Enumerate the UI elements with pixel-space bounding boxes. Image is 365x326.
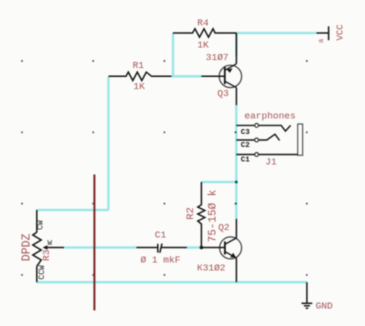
svg-text:R4: R4 [197, 17, 209, 28]
svg-text:C1: C1 [155, 229, 167, 240]
potentiometer R3 [33, 210, 64, 282]
svg-text:75-15Ø k: 75-15Ø k [207, 189, 219, 242]
ground symbol [302, 282, 313, 308]
wire bottom ground net [37, 281, 307, 283]
wire C1 to Q2 base [187, 246, 200, 248]
svg-text:VCC: VCC [336, 24, 346, 41]
wire pot top horizontal [37, 209, 109, 211]
jack pin C3 lead [236, 125, 290, 131]
wire VCC net top: R4 right to VCC terminal [236, 32, 316, 34]
resistor R2 (vertical) [198, 182, 205, 248]
junction node R2 top / collector [235, 181, 238, 184]
wiper arrow R3 [43, 245, 48, 250]
wire R1 right to Q3 base [172, 75, 202, 77]
resistor R1 [109, 72, 172, 80]
svg-text:C2: C2 [241, 142, 251, 150]
wire Q3 emitter down to jack / Q2 collector vertical [235, 104, 237, 219]
svg-text:R3: R3 [41, 249, 52, 261]
svg-text:C1: C1 [241, 157, 251, 165]
jack pin C2 lead [236, 134, 279, 140]
svg-text:C3: C3 [241, 129, 251, 137]
svg-text:CCW: CCW [38, 265, 47, 280]
wire R2 top to collector net [201, 181, 236, 183]
wire R4 left lead drop (vertical cyan x=173) [172, 34, 174, 77]
wire left vertical from R1 left lead down [107, 77, 109, 210]
transistor Q3 (PNP) [201, 33, 241, 105]
resistor R4 [173, 29, 237, 37]
svg-text:CW: CW [36, 220, 45, 230]
svg-text:J1: J1 [265, 157, 277, 168]
svg-text:a: a [318, 39, 326, 43]
junction node R2/base [200, 246, 204, 250]
svg-text:earphones: earphones [244, 111, 295, 122]
svg-text:1K: 1K [133, 81, 145, 92]
bus line (dark red vertical) [93, 175, 95, 311]
svg-text:R1: R1 [133, 60, 145, 71]
wire wiper to C1 [64, 246, 136, 248]
wire Q3 collector top vertical [235, 33, 237, 56]
svg-text:GND: GND [316, 300, 333, 311]
jack pin circle C2 [255, 138, 259, 142]
jack pin circle C1 [255, 153, 259, 157]
jack pin C1 lead [236, 154, 297, 156]
jack pin circle C3 [255, 124, 259, 128]
svg-text:31Ø7: 31Ø7 [206, 52, 229, 63]
svg-text:R2: R2 [185, 207, 197, 220]
svg-text:Q2: Q2 [218, 222, 230, 233]
svg-text:1K: 1K [197, 40, 209, 51]
transistor Q2 (NPN) [200, 219, 242, 282]
svg-text:К31Ø2: К31Ø2 [197, 262, 226, 273]
VCC terminal [317, 26, 329, 40]
svg-text:W: W [48, 240, 53, 248]
svg-text:DPDZ: DPDZ [20, 233, 33, 261]
svg-text:Ø 1 mkF: Ø 1 mkF [141, 255, 181, 266]
jack J1 body [298, 124, 303, 155]
svg-text:Q3: Q3 [217, 88, 229, 99]
capacitor C1 [136, 244, 187, 253]
